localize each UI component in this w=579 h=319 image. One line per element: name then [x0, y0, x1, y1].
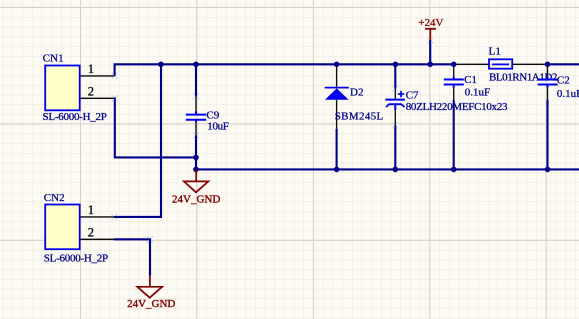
svg-text:CN1: CN1	[43, 52, 64, 64]
connector CN1 body	[45, 66, 79, 111]
svg-text:24V_GND: 24V_GND	[127, 298, 175, 310]
wire: node A (C9 bottom) to GND rail	[195, 157, 197, 169]
svg-text:1: 1	[88, 203, 94, 217]
svg-text:C2: C2	[557, 74, 570, 86]
pin 2 of CN2	[80, 238, 115, 240]
pin: L1 right lead	[512, 63, 547, 65]
junction: GND rail / node A	[193, 167, 199, 173]
ground symbol 24V_GND (under C9 node)	[184, 169, 209, 192]
pin: L1 left lead	[454, 63, 489, 65]
pin: C7 top lead	[394, 89, 396, 99]
wire: top rail down to CN2 pin 1	[114, 64, 161, 217]
capacitor C9 plates	[186, 111, 206, 122]
junction: node A (CN1 pin2 / C9 bottom)	[193, 155, 199, 161]
power port +24V bar symbol	[425, 29, 436, 40]
junction: GND rail / C7	[393, 167, 399, 173]
svg-text:1: 1	[88, 62, 94, 76]
capacitor C2 plates	[538, 76, 558, 87]
svg-text:+24V: +24V	[418, 17, 443, 29]
pin: D2 anode lead	[336, 100, 338, 129]
svg-text:SBM245L: SBM245L	[335, 111, 384, 123]
ground symbol 24V_GND (under CN2 pin2)	[137, 276, 162, 298]
capacitor C1 plates	[444, 76, 464, 87]
svg-text:2: 2	[88, 226, 94, 240]
wire: +24V top rail with riser from CN1 pin 1	[115, 64, 454, 76]
wire: +24V power stem to top rail	[429, 40, 431, 64]
junction: GND rail / D2	[334, 167, 340, 173]
diode D2 cathode bar	[325, 87, 349, 89]
capacitor C7 plus sign	[398, 91, 404, 97]
wire: C7 bottom pin to GND rail	[394, 126, 396, 170]
wire: CN2 pin 2 to ground symbol	[114, 239, 150, 275]
svg-text:2: 2	[88, 85, 94, 99]
pin: C9 top lead	[195, 96, 197, 111]
inductor L1 core line	[492, 63, 509, 65]
wire: bottom 24V_GND rail	[196, 168, 579, 170]
pin 1 of CN2	[80, 216, 115, 218]
junction: top rail / D2	[334, 62, 340, 68]
wire: C9 bottom pin to node A	[195, 136, 197, 158]
svg-text:24V_GND: 24V_GND	[172, 193, 220, 205]
junction: top rail / C1	[451, 62, 457, 68]
wire-end snap markers (light blue X)	[111, 38, 433, 243]
svg-text:SL-6000-H_2P: SL-6000-H_2P	[44, 252, 108, 264]
wire: top rail to C7 top pin	[394, 64, 396, 88]
junction: GND rail / C2	[545, 167, 551, 173]
capacitor C7 plate stub	[394, 104, 396, 110]
junction: top rail / C2	[545, 62, 551, 68]
svg-text:0.1uF: 0.1uF	[557, 88, 579, 100]
pin: C2 bottom lead	[547, 88, 549, 100]
svg-text:SL-6000-H_2P: SL-6000-H_2P	[43, 111, 107, 123]
capacitor C7 positive plate	[385, 99, 405, 101]
svg-text:CN2: CN2	[44, 192, 65, 204]
svg-text:C7: C7	[406, 90, 419, 102]
svg-text:C9: C9	[206, 110, 219, 122]
wire: top rail segment right of L1 to sheet edge	[548, 63, 579, 65]
junction: top rail / C9	[193, 62, 199, 68]
svg-text:10uF: 10uF	[207, 121, 228, 133]
wire: top rail to C9 top pin	[195, 64, 197, 96]
pin 1 of CN1	[80, 75, 115, 77]
capacitor C7 curved plate	[386, 104, 405, 107]
connector CN2 body	[45, 205, 79, 250]
pin: C2 top lead	[547, 64, 549, 76]
wire: D2 anode to GND rail	[336, 129, 338, 170]
svg-text:C1: C1	[464, 74, 477, 86]
wire: CN1 pin 2 to C9/GND node	[114, 98, 196, 157]
junction: top rail / +24V stem	[427, 62, 433, 68]
svg-text:L1: L1	[489, 46, 501, 58]
svg-text:D2: D2	[350, 86, 363, 98]
pin 2 of CN1	[80, 97, 115, 99]
svg-text:80ZLH220MEFC10x23: 80ZLH220MEFC10x23	[406, 101, 508, 113]
diode D2 triangle	[325, 88, 349, 99]
junction: GND rail / C1	[451, 167, 457, 173]
inductor L1 (ferrite bead) body	[489, 59, 512, 68]
junction: top rail / CN2 feed	[158, 62, 164, 68]
pin: C1 bottom lead	[453, 88, 455, 100]
pin: C7 bottom lead	[394, 110, 396, 125]
svg-text:0.1uF: 0.1uF	[465, 86, 490, 98]
pin: C9 bottom lead	[195, 122, 197, 135]
wire: C2 bottom pin to GND rail	[546, 100, 548, 170]
pin: C1 top lead	[453, 64, 455, 76]
wire: C1 bottom pin to GND rail	[453, 100, 455, 170]
pin: D2 cathode lead	[336, 64, 338, 87]
junction: top rail / C7	[393, 62, 399, 68]
